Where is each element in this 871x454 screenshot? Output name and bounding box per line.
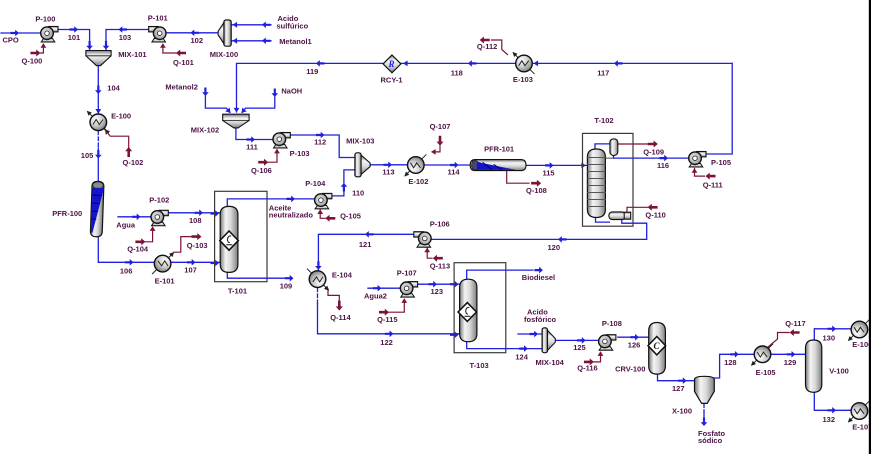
svg-text:109: 109 (280, 281, 293, 290)
column T-101 sub-flowsheet box (215, 191, 267, 295)
svg-text:T-101: T-101 (228, 287, 247, 296)
svg-text:101: 101 (68, 33, 81, 42)
svg-text:114: 114 (448, 168, 461, 177)
wire stream 126 (618, 334, 649, 350)
svg-text:108: 108 (189, 216, 202, 225)
svg-text:121: 121 (359, 240, 372, 249)
wire stream Acido fosforico feed (518, 307, 557, 337)
svg-text:130: 130 (823, 334, 836, 343)
column T-103 sub-flowsheet box (454, 263, 506, 370)
svg-text:Metanol1: Metanol1 (279, 37, 312, 46)
wire stream 124 (467, 342, 542, 361)
energy stream Q-102 (103, 128, 144, 167)
svg-text:Q-101: Q-101 (173, 58, 194, 67)
svg-text:P-104: P-104 (305, 179, 326, 188)
heat exchanger E-102 (404, 155, 428, 186)
wire stream 104 (95, 66, 121, 114)
svg-text:Q-108: Q-108 (526, 186, 547, 195)
heat exchanger E-101 (152, 252, 174, 286)
wire stream Biodiesel (467, 267, 555, 282)
wire stream 119 (234, 60, 384, 112)
svg-text:PFR-100: PFR-100 (52, 209, 82, 218)
wire stream 103 (103, 26, 149, 50)
wire stream 106 (98, 237, 154, 276)
svg-text:CRV-100: CRV-100 (615, 365, 645, 374)
svg-text:126: 126 (628, 341, 641, 350)
svg-text:P-105: P-105 (711, 158, 731, 167)
wire stream 130 (814, 326, 851, 343)
svg-text:Q-117: Q-117 (785, 319, 805, 328)
wire stream 102 (167, 30, 218, 46)
energy stream Q-100 (22, 43, 47, 65)
mixer MIX-102 (191, 114, 249, 134)
wire stream Agua (116, 214, 150, 230)
wire stream 115 (526, 162, 588, 177)
wire stream 122 (318, 288, 460, 347)
pump P-101 (148, 13, 168, 42)
pump P-104 (305, 179, 332, 209)
wire stream 117 (532, 60, 732, 77)
svg-text:Q-115: Q-115 (377, 315, 397, 324)
svg-text:128: 128 (724, 358, 737, 367)
wire stream 113 (370, 162, 407, 177)
svg-text:fosfórico: fosfórico (524, 315, 557, 324)
pump P-102 (149, 196, 169, 226)
svg-text:MIX-103: MIX-103 (346, 136, 374, 145)
vessel V-100 (806, 340, 849, 392)
wire stream 114 (424, 162, 470, 177)
wire T-102 overhead vapour (595, 144, 610, 150)
wire stream 107 (171, 259, 220, 275)
wire stream Metanol2 feed (165, 82, 232, 114)
svg-text:E-100: E-100 (111, 112, 131, 121)
wire stream Aceite neutralizado (227, 196, 314, 220)
wire stream 112 (290, 132, 355, 158)
wire stream 116 (614, 155, 689, 170)
svg-text:P-101: P-101 (148, 13, 168, 22)
pump P-100 (35, 14, 58, 42)
svg-text:111: 111 (246, 143, 258, 152)
svg-text:Q-116: Q-116 (577, 363, 597, 372)
svg-text:Q-114: Q-114 (330, 313, 351, 322)
svg-text:104: 104 (107, 84, 120, 93)
svg-text:neutralizado: neutralizado (269, 211, 314, 220)
svg-text:P-107: P-107 (397, 268, 417, 277)
svg-text:Q-105: Q-105 (340, 212, 361, 221)
svg-text:Q-113: Q-113 (430, 262, 450, 271)
wire stream 101 (58, 26, 93, 50)
pump P-108 (599, 319, 622, 350)
svg-text:E-105: E-105 (756, 368, 776, 377)
energy stream Q-101 (160, 43, 194, 67)
pump P-107 (397, 268, 418, 297)
wire stream 111 (236, 128, 272, 152)
svg-text:P-100: P-100 (35, 14, 55, 23)
svg-text:123: 123 (431, 287, 444, 296)
mixer MIX-101 (86, 50, 147, 66)
energy stream Q-109 (618, 141, 664, 157)
wire stream Fosfato sodico (698, 404, 726, 445)
svg-text:P-102: P-102 (149, 196, 169, 205)
wire T-102 condenser liquid link (605, 157, 614, 159)
wire stream 128 (714, 351, 754, 378)
svg-text:116: 116 (657, 161, 669, 170)
svg-text:NaOH: NaOH (281, 86, 302, 95)
svg-text:C: C (654, 341, 661, 351)
heat exchanger E-105 (751, 344, 776, 377)
svg-text:117: 117 (597, 68, 609, 77)
column T-102 tray tower (587, 149, 605, 218)
energy stream Q-116 (577, 351, 603, 372)
svg-text:132: 132 (823, 415, 836, 424)
column T-101 vessel (220, 206, 239, 272)
energy stream Q-112 (477, 37, 508, 55)
mixer MIX-104 (536, 328, 565, 367)
svg-text:Q-100: Q-100 (22, 56, 43, 65)
energy stream Q-106 (251, 149, 280, 175)
energy stream Q-110 (627, 204, 666, 220)
svg-text:X-100: X-100 (672, 407, 692, 416)
svg-text:MIX-104: MIX-104 (536, 358, 565, 367)
svg-text:110: 110 (352, 189, 364, 198)
svg-text:P-108: P-108 (602, 319, 622, 328)
svg-text:E-101: E-101 (155, 277, 175, 286)
energy stream Q-108 (507, 171, 547, 195)
pump P-103 (273, 133, 310, 158)
heat exchanger E-103 (512, 52, 534, 84)
mixer MIX-100 (210, 20, 238, 59)
svg-text:RCY-1: RCY-1 (381, 75, 403, 84)
svg-text:Q-109: Q-109 (643, 147, 664, 156)
svg-text:MIX-101: MIX-101 (118, 50, 146, 59)
wire stream Acido sulfurico feed (232, 14, 309, 31)
svg-text:118: 118 (451, 68, 463, 77)
wire stream 118 (400, 60, 515, 77)
heat exchanger E-107 (848, 401, 871, 432)
pump P-106 (414, 220, 450, 248)
svg-text:E-106: E-106 (852, 340, 871, 349)
svg-text:Q-102: Q-102 (123, 158, 144, 167)
wire stream Agua2 (364, 285, 400, 300)
svg-text:E-102: E-102 (408, 177, 428, 186)
svg-text:Q-104: Q-104 (127, 244, 149, 253)
reboiler T-102 (609, 212, 631, 220)
wire stream 108 (169, 210, 221, 226)
wire stream 109 (227, 273, 293, 291)
svg-text:115: 115 (543, 168, 555, 177)
energy stream Q-113 (424, 248, 450, 271)
wire stream 110 (332, 170, 365, 198)
svg-text:113: 113 (382, 168, 394, 177)
reactor PFR-100 (51, 180, 104, 237)
wire stream 129 (771, 351, 806, 367)
energy stream Q-105 (317, 209, 361, 221)
wire stream 125 (555, 337, 598, 352)
svg-text:T-103: T-103 (470, 361, 489, 370)
svg-text:Q-106: Q-106 (251, 166, 272, 175)
reactor PFR-101 (470, 145, 526, 171)
svg-text:V-100: V-100 (829, 367, 849, 376)
svg-text:sulfúrico: sulfúrico (277, 21, 309, 30)
energy stream Q-104 (127, 226, 155, 253)
column T-102 sub-flowsheet box (583, 116, 634, 226)
wire T-102 bottoms to reboiler (596, 217, 610, 223)
wire stream 132 (814, 393, 851, 425)
svg-text:125: 125 (573, 343, 586, 352)
svg-text:P-103: P-103 (290, 149, 310, 158)
svg-text:103: 103 (119, 33, 132, 42)
mixer MIX-103 (346, 136, 374, 176)
heat exchanger E-100 (87, 111, 131, 133)
svg-text:T-102: T-102 (594, 116, 613, 125)
energy stream Q-107 (430, 122, 451, 155)
energy stream Q-115 (377, 298, 407, 324)
wire stream NaOH feed (239, 86, 302, 114)
energy stream Q-103 (174, 233, 208, 252)
svg-text:E-107: E-107 (852, 422, 871, 431)
svg-text:105: 105 (81, 151, 94, 160)
svg-text:E-104: E-104 (332, 271, 353, 280)
wire stream 105 (81, 131, 102, 181)
svg-text:P-106: P-106 (430, 220, 450, 229)
wire stream Metanol1 feed (232, 37, 312, 46)
svg-text:106: 106 (120, 267, 133, 276)
wire stream 127 (658, 374, 695, 393)
svg-text:Q-112: Q-112 (477, 42, 497, 51)
svg-text:Q-110: Q-110 (645, 211, 665, 220)
svg-text:127: 127 (672, 384, 685, 393)
condenser T-102 (610, 139, 618, 156)
svg-text:112: 112 (314, 138, 326, 147)
recycle RCY-1 (381, 55, 403, 84)
wire stream 121 (315, 231, 413, 270)
svg-text:119: 119 (306, 67, 318, 76)
column T-103 vessel (458, 279, 477, 342)
wire P-105 outlet riser (706, 63, 732, 154)
svg-text:PFR-101: PFR-101 (484, 145, 514, 154)
reactor CRV-100 (615, 323, 666, 375)
svg-text:R: R (388, 59, 395, 69)
separator X-100 (672, 376, 714, 415)
svg-text:Q-111: Q-111 (703, 181, 723, 190)
pump P-105 (689, 152, 731, 168)
svg-text:Q-107: Q-107 (430, 122, 451, 131)
heat exchanger E-106 (848, 319, 871, 349)
svg-text:107: 107 (184, 266, 197, 275)
energy stream Q-114 (328, 289, 351, 322)
svg-text:129: 129 (784, 358, 797, 367)
svg-text:sódico: sódico (698, 436, 723, 445)
svg-text:E-103: E-103 (513, 75, 533, 84)
svg-text:Agua: Agua (116, 220, 136, 229)
svg-text:Q-103: Q-103 (187, 241, 208, 250)
svg-text:Metanol2: Metanol2 (165, 82, 198, 91)
svg-text:122: 122 (380, 338, 393, 347)
wire stream 123 (419, 281, 460, 296)
svg-text:Biodiesel: Biodiesel (522, 273, 555, 282)
wire stream CPO (1, 30, 40, 45)
svg-text:124: 124 (515, 352, 528, 361)
wire stream 120 (432, 220, 647, 252)
svg-text:102: 102 (191, 36, 204, 45)
heat exchanger E-104 (307, 269, 352, 291)
svg-text:MIX-100: MIX-100 (210, 50, 238, 59)
svg-text:Agua2: Agua2 (364, 291, 387, 300)
svg-text:CPO: CPO (3, 36, 19, 45)
energy stream Q-111 (692, 168, 723, 189)
right page border (869, 0, 871, 454)
svg-text:120: 120 (548, 243, 561, 252)
energy stream Q-117 (768, 319, 806, 347)
svg-text:MIX-102: MIX-102 (191, 126, 219, 135)
